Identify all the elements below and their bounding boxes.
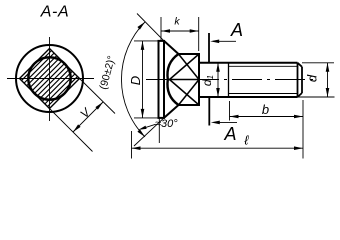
- b extension line: [229, 101, 231, 121]
- end face: [301, 67, 303, 93]
- cone edge extension upper: [137, 14, 166, 43]
- V dimension line: [73, 102, 103, 132]
- svg-text:d: d: [305, 74, 320, 82]
- section arrow bottom: [214, 121, 237, 123]
- neck flat diagonals upper X: [179, 54, 200, 80]
- left view vertical centerline: [49, 37, 51, 121]
- D dimension line: [142, 41, 144, 118]
- svg-text:D: D: [128, 76, 143, 85]
- section line top: [208, 33, 210, 63]
- thread minor diameter top: [229, 65, 298, 67]
- cone top edge: [164, 41, 179, 54]
- neck top edge: [179, 53, 200, 55]
- angle dimension arc (90 deg): [121, 22, 145, 137]
- d extension bottom: [298, 96, 335, 98]
- left view horizontal centerline: [7, 78, 94, 80]
- 30 deg extension line: [158, 119, 160, 144]
- cone-flat intersection arc lower: [167, 80, 178, 106]
- head outline circle D: [16, 45, 83, 112]
- cone bottom edge: [164, 105, 179, 118]
- section arrow top: [213, 40, 236, 42]
- square neck outline (rotated 45): [20, 49, 80, 109]
- k extension right: [198, 17, 200, 51]
- k extension left: [160, 17, 162, 41]
- head top edge: [158, 40, 166, 42]
- svg-text:A: A: [223, 124, 236, 144]
- svg-text:k: k: [174, 16, 180, 28]
- end extension line: [302, 100, 304, 159]
- head flat face line: [158, 41, 160, 118]
- 30 deg leader arrow: [142, 124, 156, 129]
- k dimension line: [161, 30, 199, 32]
- chamfer top: [298, 63, 303, 67]
- neck bottom edge: [179, 104, 200, 106]
- b dimension line: [230, 116, 304, 118]
- D extension bottom: [134, 117, 159, 119]
- cone edge extension lower: [134, 116, 166, 146]
- head bottom edge: [158, 117, 166, 119]
- d dimension line: [327, 63, 329, 97]
- svg-text:≈30°: ≈30°: [155, 118, 178, 130]
- D extension top: [134, 40, 159, 42]
- main view centerline: [146, 79, 313, 81]
- neck flat diagonals lower X: [170, 80, 200, 106]
- section line bottom: [208, 97, 210, 126]
- svg-text:A-A: A-A: [40, 4, 69, 21]
- thread minor diameter bottom: [229, 93, 298, 95]
- d extension top: [302, 62, 334, 64]
- head cylindrical edge line: [163, 41, 165, 118]
- svg-text:b: b: [262, 102, 269, 117]
- thread runout line: [228, 63, 230, 97]
- shank top edge: [199, 62, 298, 64]
- shank bottom edge: [199, 96, 298, 98]
- chamfer bottom: [298, 93, 303, 97]
- cone section circle (thick): [28, 57, 70, 99]
- cone-flat intersection arc upper: [167, 54, 178, 80]
- neck right edge: [198, 53, 200, 106]
- neck mid edge on axis: [168, 79, 199, 81]
- d1 dimension line: [217, 63, 219, 97]
- svg-text:A: A: [230, 20, 243, 40]
- l extension line: [131, 131, 133, 159]
- l dimension line: [132, 147, 304, 149]
- chamfer edge line: [297, 63, 299, 97]
- V extension line upper: [78, 77, 116, 114]
- V extension line lower: [48, 107, 93, 152]
